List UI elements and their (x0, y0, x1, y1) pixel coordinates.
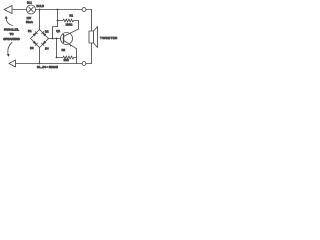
node junction base / R2 (56, 38, 58, 40)
node junction R2 corner (56, 57, 58, 59)
svg-text:TO: TO (9, 32, 14, 36)
terminal circle top (82, 8, 86, 12)
svg-text:BULB: BULB (37, 4, 44, 8)
wire base feed (53, 27, 58, 39)
node junction base feed (52, 38, 54, 40)
lamp BL1 (27, 5, 36, 14)
transistor Q1 (61, 29, 79, 49)
diode D1 (33, 32, 38, 37)
svg-text:D2: D2 (45, 29, 49, 33)
svg-text:50mA: 50mA (26, 20, 33, 24)
wire top right drop to tweeter (91, 10, 93, 32)
wire top rail (12, 9, 92, 11)
wire bridge bottom (39, 48, 41, 64)
input terminal arrow (bottom) (9, 60, 16, 67)
label PARALLEL TO SPEAKERS (3, 27, 19, 41)
diode D2 (42, 32, 47, 37)
diode bridge diamond (31, 30, 49, 48)
arrow to bottom terminal (7, 43, 12, 57)
wire bottom right rise to tweeter (91, 43, 93, 64)
svg-text:Q1: Q1 (56, 29, 60, 33)
node junction bottom rail / bridge (39, 63, 41, 65)
svg-text:D1...D4 = 1N4148: D1...D4 = 1N4148 (37, 65, 58, 69)
svg-text:SPEAKERS: SPEAKERS (3, 37, 19, 41)
svg-text:D4: D4 (45, 46, 49, 50)
svg-text:TWEETER: TWEETER (100, 36, 118, 40)
terminal circle bottom (82, 62, 86, 66)
node junction top rail / bridge (39, 9, 41, 11)
svg-text:D1: D1 (28, 29, 32, 33)
svg-text:PARALLEL: PARALLEL (4, 27, 19, 31)
wire bridge top (39, 10, 41, 30)
diode D3 (33, 41, 38, 46)
input terminal arrow (top) (4, 6, 12, 14)
resistor R1 (57, 9, 79, 29)
svg-text:R2: R2 (62, 48, 66, 52)
svg-text:R1: R1 (70, 14, 74, 18)
svg-text:D3: D3 (30, 46, 34, 50)
svg-text:12V: 12V (27, 16, 32, 20)
wire R2 left drop (56, 39, 58, 58)
tweeter speaker (89, 27, 98, 48)
resistor R2 (57, 56, 77, 59)
svg-text:100Ω: 100Ω (66, 23, 73, 27)
svg-text:BL1: BL1 (27, 1, 32, 5)
arrow to top terminal (5, 16, 13, 26)
wire emitter drop (76, 49, 78, 64)
svg-text:10Ω: 10Ω (64, 58, 69, 62)
wire bottom rail (16, 63, 92, 65)
wire base from bridge to Q1 (49, 38, 64, 40)
diode D4 (42, 41, 47, 46)
